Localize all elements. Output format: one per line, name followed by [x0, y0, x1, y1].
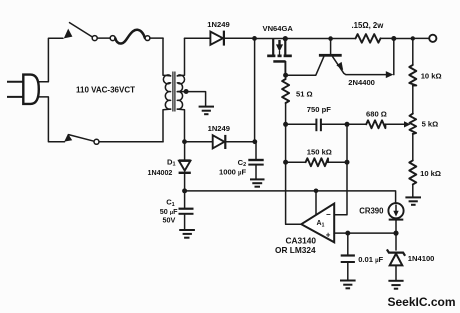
svg-text:−: − — [326, 210, 331, 219]
svg-text:1N249: 1N249 — [207, 20, 229, 29]
svg-text:680 Ω: 680 Ω — [366, 109, 387, 118]
svg-text:5 kΩ: 5 kΩ — [422, 120, 439, 129]
svg-text:10 kΩ: 10 kΩ — [420, 169, 441, 178]
svg-text:.15Ω, 2w: .15Ω, 2w — [352, 21, 385, 30]
svg-text:OR LM324: OR LM324 — [275, 245, 316, 255]
svg-text:1N249: 1N249 — [208, 124, 230, 133]
svg-text:2N4400: 2N4400 — [348, 78, 375, 87]
svg-text:1N4100: 1N4100 — [408, 254, 435, 263]
svg-text:CR390: CR390 — [359, 206, 384, 215]
svg-text:+: + — [326, 231, 331, 240]
svg-text:50V: 50V — [163, 216, 176, 225]
svg-text:50 µF: 50 µF — [160, 207, 178, 216]
svg-text:CA3140: CA3140 — [286, 235, 317, 245]
svg-text:1000 µF: 1000 µF — [219, 167, 246, 176]
svg-text:10 kΩ: 10 kΩ — [421, 71, 442, 80]
svg-text:1N4002: 1N4002 — [148, 169, 173, 177]
svg-text:150 kΩ: 150 kΩ — [307, 148, 332, 157]
svg-text:SeekIC.com: SeekIC.com — [388, 295, 456, 309]
svg-text:VN64GA: VN64GA — [263, 24, 294, 33]
svg-text:0.01 µF: 0.01 µF — [358, 255, 383, 264]
svg-text:750 pF: 750 pF — [307, 105, 331, 114]
svg-text:110 VAC-36VCT: 110 VAC-36VCT — [76, 86, 135, 95]
svg-text:51 Ω: 51 Ω — [296, 89, 313, 98]
